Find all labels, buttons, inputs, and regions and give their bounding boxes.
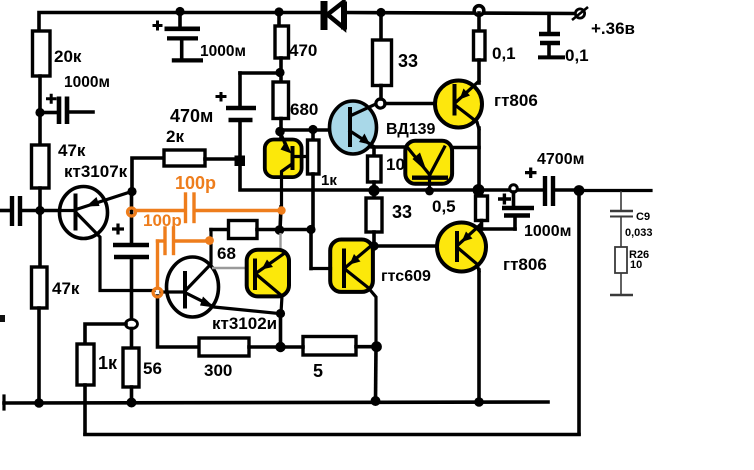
svg-text:100р: 100р [143, 211, 182, 230]
node mid rail big junction [473, 184, 485, 196]
svg-text:кт3107к: кт3107к [64, 162, 128, 181]
resistor 300 [199, 338, 249, 356]
resistor 1к left [77, 344, 94, 385]
node rail A 56 junction [127, 398, 137, 408]
wire 4700м to output node [555, 188, 579, 192]
svg-text:4700м: 4700м [537, 151, 584, 168]
node rail-470 junction [274, 7, 283, 16]
svg-text:кт3102и: кт3102и [212, 314, 277, 333]
wire 0,5 bottom [480, 221, 484, 230]
stray mark left edge [0, 315, 5, 322]
svg-text:0,1: 0,1 [565, 46, 589, 65]
node гтс609 collector junction [369, 241, 378, 250]
wire 47к to input node [38, 188, 42, 267]
svg-text:20к: 20к [54, 47, 82, 66]
resistor 680 [273, 82, 289, 119]
terminal +36v [572, 7, 588, 20]
svg-text:0,1: 0,1 [492, 44, 516, 63]
node 68 line right junction [306, 225, 315, 234]
resistor 56 [123, 348, 139, 387]
svg-text:+.36в: +.36в [591, 19, 635, 38]
node 1к top junction [308, 125, 317, 134]
node input junction [35, 206, 44, 215]
wire 47к lower to rail A [37, 308, 41, 403]
node box2 to rail junction [425, 187, 434, 196]
wire 470 to 680 [279, 58, 283, 82]
svg-text:68: 68 [217, 244, 236, 263]
node rail-1000m junction [175, 7, 184, 16]
resistor 33 bottom [366, 198, 382, 232]
wire 470м to mid rail [240, 166, 543, 190]
node 68-box3 junction [275, 225, 285, 235]
wire base to гт806 bottom [374, 244, 453, 248]
node lens junction [126, 319, 138, 328]
wire output rail thin right [579, 189, 651, 192]
node box3 emitter junction [276, 309, 285, 318]
svg-text:680: 680 [290, 100, 318, 119]
wire 68 right lead [257, 228, 311, 232]
wire 0,1 to гт806 collector [477, 60, 481, 83]
node output junction [574, 185, 585, 196]
diode D1 [324, 1, 344, 30]
svg-text:10: 10 [386, 155, 405, 174]
transistor гт806 bottom [437, 223, 486, 272]
wire upper 100p node vertical (emitter cap lead) [130, 192, 134, 243]
wire lens to 1к left [85, 324, 126, 345]
node rail-0,1 ring junction [474, 6, 484, 16]
resistor 47к upper [32, 145, 50, 188]
resistor 1к mid [308, 140, 320, 174]
svg-text:1к: 1к [98, 353, 118, 373]
wire gray box3 base link [212, 267, 253, 269]
svg-text:47к: 47к [58, 141, 86, 160]
node rail A mid junction [371, 396, 381, 406]
transistor кт3107к [60, 187, 155, 291]
wire top supply rail right segment [345, 13, 576, 14]
wire 1к mid top stub [311, 130, 315, 140]
wire 56 to rail A [130, 387, 134, 402]
wire rail B [85, 433, 579, 437]
capacitor 100p upper (orange) [128, 194, 286, 222]
svg-text:гтс609: гтс609 [381, 268, 431, 285]
wire 0,1 stub from rail [477, 13, 481, 31]
node 470 bottom junction [275, 68, 284, 77]
node rail-33 junction [376, 8, 385, 17]
wire output down right side [577, 191, 581, 435]
wire top supply rail left segment [39, 13, 321, 32]
wire 10 bottom stub [372, 182, 376, 190]
capacitor 1000м top (electrolytic to ground) [153, 14, 204, 60]
resistor 470 [275, 26, 289, 58]
wire 680 to base node [279, 119, 283, 138]
wire гт806 emitter down to mid rail [477, 128, 481, 190]
transistor гтс609 [311, 240, 376, 348]
wire 5 right lead [356, 345, 376, 349]
wire rail A [4, 402, 548, 403]
wire blue emitter to box2 [372, 145, 406, 149]
svg-text:гт806: гт806 [494, 91, 538, 110]
capacitor input (left edge) [0, 196, 60, 226]
wire lens to 56 [130, 329, 134, 349]
wire 1к left to rail B [83, 385, 87, 434]
wire гтс609 base up to 68 line [309, 230, 313, 269]
transistor Q yellow box1 [265, 134, 308, 207]
node 300-5 junction [275, 342, 285, 352]
transistor box2 ВД139 yellow [405, 141, 452, 190]
node emitter-2к junction [127, 187, 136, 196]
svg-text:C9: C9 [636, 211, 650, 223]
node 680 bottom junction [275, 127, 285, 137]
node 1000м ring junction [510, 185, 518, 193]
capacitor 4700м [525, 168, 553, 207]
wire 33 bottom to base node [372, 232, 376, 246]
svg-text:ВД139: ВД139 [386, 121, 436, 138]
svg-text:1к: 1к [321, 172, 337, 189]
node 1000м-left junction [35, 108, 44, 117]
svg-text:2к: 2к [166, 127, 184, 146]
node 2к-470м square junction [235, 156, 246, 167]
svg-text:47к: 47к [52, 279, 80, 298]
transistor кт3102и [161, 230, 279, 318]
capacitor 1000м left (horizontal) [44, 94, 93, 124]
svg-text:0,5: 0,5 [432, 197, 456, 216]
wire 68 left lead [211, 228, 229, 232]
capacitor electrolytic emitter (vertical) [112, 224, 149, 320]
svg-text:гт806: гт806 [503, 255, 547, 274]
wire 33top stub from rail [379, 14, 383, 40]
svg-text:1000м: 1000м [524, 223, 571, 240]
svg-text:470м: 470м [170, 106, 213, 126]
svg-text:470: 470 [289, 41, 317, 60]
wire 0,5 stub [480, 190, 484, 196]
resistor 33 top [373, 40, 392, 86]
wire 300 right lead [249, 345, 280, 349]
svg-text:1000м: 1000м [64, 74, 110, 91]
resistor 68 [229, 221, 258, 239]
svg-text:56: 56 [143, 359, 162, 378]
wire 20к to 47к [38, 76, 42, 145]
svg-text:100р: 100р [175, 173, 216, 193]
wire 33 bottom to ring [379, 86, 383, 100]
wire 2к right lead [205, 157, 238, 161]
wire box2 to гт806 vertical [451, 146, 479, 150]
node 33-collector ring junction [376, 99, 385, 108]
wire гтс609 emitter to rail A [374, 347, 378, 401]
svg-text:1000м: 1000м [200, 43, 246, 60]
resistor 0,1 [474, 31, 486, 60]
wire 470 stub from rail [277, 14, 281, 26]
resistor 2к [164, 150, 205, 166]
transistor box3 yellow [247, 250, 289, 313]
wire кт3102и base to 300 [158, 296, 200, 347]
node 5-гтс609 junction [371, 341, 382, 352]
wire 5 left lead [281, 345, 304, 349]
wire rail A left tick [2, 396, 5, 409]
C9 R26 thin network [610, 191, 633, 295]
svg-text:5: 5 [313, 361, 323, 381]
transistor гт806 top [435, 81, 482, 130]
wire ring to гт806 base [385, 102, 452, 106]
wire 1к mid down to 68 line [311, 174, 315, 230]
wire junction down to 300-5 node [279, 314, 283, 348]
wire orange node to 68 junction [280, 207, 281, 230]
transistor ВД139 (blue) [330, 101, 378, 154]
capacitor 100p lower (orange) [153, 228, 214, 297]
resistor 47к lower [32, 267, 48, 308]
node 10-rail junction [368, 185, 379, 196]
wire gray box3 collector stub [279, 233, 281, 251]
resistor 20к [33, 31, 51, 76]
wire гт806 bottom emitter to rail A [477, 270, 481, 402]
node rail A 47к junction [34, 398, 44, 408]
capacitor 1000м right [481, 192, 534, 229]
node rail A гт806 junction [474, 397, 484, 407]
svg-text:10: 10 [630, 259, 642, 271]
wire 33 bottom stub from rail [372, 190, 376, 198]
svg-text:300: 300 [204, 361, 232, 380]
wire 470-680 junction to 470м [240, 71, 279, 75]
svg-text:0,033: 0,033 [625, 227, 653, 239]
svg-text:33: 33 [398, 51, 418, 71]
resistor 5 [303, 337, 356, 356]
wire 10 resistor top stub [372, 148, 376, 157]
capacitor 470м [216, 73, 257, 157]
resistor 0,5 [476, 196, 488, 221]
capacitor 0,1 right (near terminal) [538, 14, 565, 57]
wire base line to ВД139 [281, 128, 350, 132]
svg-text:33: 33 [392, 202, 412, 222]
resistor 10 [368, 156, 382, 182]
wire 2к left lead [132, 158, 164, 192]
